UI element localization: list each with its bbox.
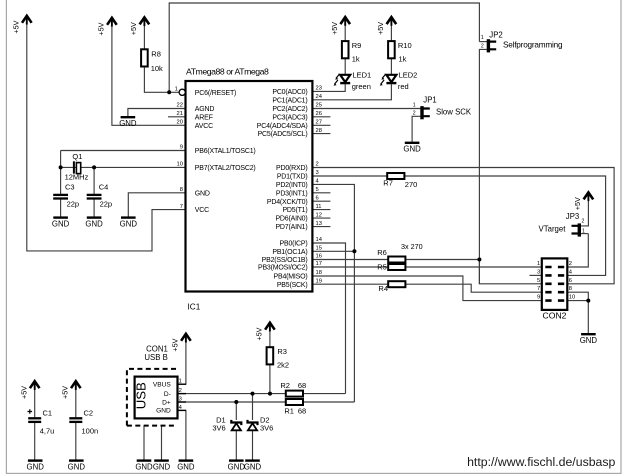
wire PC2 pin 25 to JP1 pin 1	[312, 108, 420, 110]
svg-text:PC4(ADC4/SDA): PC4(ADC4/SDA)	[257, 123, 308, 130]
wire D2 to D- line	[252, 394, 254, 420]
wire PB5 SCK pin 19 to R4	[312, 283, 388, 285]
svg-text:25: 25	[316, 103, 322, 109]
wire C1 to ground	[34, 423, 36, 460]
svg-text:+5V: +5V	[129, 22, 138, 35]
svg-text:R9: R9	[352, 41, 362, 50]
node XTAL1 junction	[59, 165, 63, 169]
svg-text:D-: D-	[164, 391, 171, 398]
wire +5V to VCC pin 7	[27, 17, 186, 251]
node RESET junction R8/top-rail/pin1	[167, 90, 171, 94]
svg-text:USB: USB	[133, 382, 148, 409]
CON2 pin bars row 3	[545, 282, 564, 285]
svg-text:R10: R10	[398, 41, 412, 50]
svg-text:AVCC: AVCC	[195, 123, 213, 130]
svg-text:3V6: 3V6	[212, 424, 225, 433]
wire XTAL1 pin 9	[61, 150, 186, 152]
svg-text:R7: R7	[383, 179, 393, 188]
svg-text:100n: 100n	[82, 426, 99, 435]
svg-text:23: 23	[316, 86, 322, 92]
wire +5V to R9	[344, 18, 346, 41]
ground under JP1	[405, 142, 420, 144]
svg-text:PD6(AIN0): PD6(AIN0)	[275, 216, 307, 223]
ground USB shield a	[137, 459, 152, 461]
wire AGND pin 22 to ground	[128, 109, 186, 117]
wire R1 to PB1/INT0 net	[304, 401, 355, 403]
svg-text:CON2: CON2	[543, 311, 567, 321]
diode D1 zener 3V6	[231, 420, 241, 430]
capacitor C3 22p	[53, 195, 68, 199]
svg-text:22p: 22p	[100, 200, 113, 209]
wire R8 to RESET pin 1	[144, 67, 179, 93]
wire R7 to CON2 pin 4	[404, 176, 605, 275]
svg-text:AGND: AGND	[195, 106, 215, 113]
svg-text:2: 2	[582, 218, 585, 224]
svg-text:USB B: USB B	[144, 353, 167, 362]
capacitor C1 4,7u electrolytic plus sign	[28, 409, 33, 414]
svg-text:2: 2	[569, 261, 572, 267]
svg-text:C4: C4	[99, 182, 109, 191]
wire GND pin 8 to ground	[128, 193, 185, 217]
svg-text:10k: 10k	[151, 64, 163, 73]
wire USB shield to ground b	[161, 426, 163, 460]
svg-text:+5V: +5V	[20, 386, 29, 399]
svg-text:ATmega88 or ATmega8: ATmega88 or ATmega8	[186, 66, 269, 76]
svg-text:GND: GND	[135, 462, 153, 471]
svg-text:C3: C3	[65, 182, 75, 191]
svg-text:27: 27	[316, 120, 322, 126]
wire reset net down (drawn above)	[478, 260, 480, 284]
wire XTAL1 node down to C3	[60, 151, 62, 195]
svg-text:PC3(ADC3): PC3(ADC3)	[272, 114, 307, 121]
svg-text:2k2: 2k2	[277, 360, 289, 369]
resistor R9 1k	[342, 41, 349, 58]
svg-text:GND: GND	[195, 190, 210, 197]
capacitor C1 4,7u	[28, 418, 41, 422]
jumper JP3 VTarget	[572, 223, 580, 236]
svg-text:1: 1	[175, 86, 178, 92]
wire PB0 pin 14 down to USB D- net	[312, 243, 345, 394]
svg-text:26: 26	[316, 111, 322, 117]
svg-text:+5V: +5V	[97, 22, 106, 35]
capacitor C4 22p	[87, 195, 102, 199]
svg-text:9: 9	[180, 145, 183, 151]
svg-text:Selfprogramming: Selfprogramming	[503, 40, 563, 49]
svg-text:11: 11	[316, 204, 322, 210]
svg-text:1: 1	[537, 261, 540, 267]
jumper JP1 Slow SCK	[422, 106, 430, 119]
CON2 pin bars row 5	[545, 299, 564, 302]
wire +5V to R8	[143, 18, 145, 49]
svg-text:C2: C2	[84, 408, 94, 417]
svg-text:+5V: +5V	[171, 338, 180, 351]
svg-text:PB2(SS/OC1B): PB2(SS/OC1B)	[262, 257, 308, 264]
wire PD0 RXD pin 2 to CON2 pin 6	[312, 168, 614, 284]
svg-text:2: 2	[316, 162, 319, 168]
svg-text:+5V: +5V	[61, 386, 70, 399]
CON2 pin bars row 4	[545, 291, 564, 294]
svg-text:PD7(AIN1): PD7(AIN1)	[275, 224, 307, 231]
pin 1 inverting bubble on PC6/RESET	[179, 89, 185, 95]
svg-text:GND: GND	[228, 462, 246, 471]
wire PD1 TXD pin 3 to R7	[312, 175, 387, 177]
resistor R10 1k	[388, 41, 395, 58]
svg-text:18: 18	[316, 270, 322, 276]
wire pin 27 stub	[312, 124, 330, 126]
svg-text:PB0(ICP): PB0(ICP)	[280, 241, 308, 248]
svg-text:JP3: JP3	[566, 212, 579, 221]
resistor R1 68	[286, 399, 303, 405]
svg-text:VBUS: VBUS	[153, 381, 172, 388]
node D1 on D+ line	[234, 400, 238, 404]
svg-text:PC5(ADC5/SCL): PC5(ADC5/SCL)	[258, 131, 308, 138]
resistor R2 68	[286, 391, 303, 397]
svg-text:PB3(MOSI/OC2): PB3(MOSI/OC2)	[258, 265, 308, 272]
svg-text:R1: R1	[284, 407, 294, 416]
resistor R7 270	[387, 173, 404, 179]
wire +5V to C1	[34, 382, 36, 418]
wire +5V top rail from RESET node to JP2 pin 1	[169, 3, 479, 92]
wire C4 to ground	[93, 199, 95, 217]
svg-text:GND: GND	[85, 219, 103, 228]
svg-text:GND: GND	[244, 462, 262, 471]
diode D2 zener 3V6	[248, 420, 258, 430]
svg-text:JP1: JP1	[423, 95, 436, 104]
svg-text:5: 5	[316, 187, 319, 193]
svg-text:13: 13	[316, 221, 322, 227]
wire R5 to CON2 pin 1	[405, 266, 541, 268]
wire USB D- to R2	[178, 393, 286, 395]
wire CON2 pin 3 stub	[530, 274, 542, 276]
svg-text:3: 3	[316, 170, 319, 176]
wire crystal to XTAL2 pin 10	[61, 166, 186, 168]
svg-text:PC0(ADC0): PC0(ADC0)	[272, 89, 307, 96]
svg-text:PB4(MISO): PB4(MISO)	[274, 274, 308, 281]
wire crystal node down to C4	[93, 167, 95, 194]
svg-text:17: 17	[316, 261, 322, 267]
svg-text:CON1: CON1	[146, 344, 168, 353]
svg-text:C1: C1	[43, 408, 53, 417]
svg-text:24: 24	[316, 94, 323, 100]
svg-text:PD4(XCK/T0): PD4(XCK/T0)	[267, 199, 308, 206]
svg-text:2: 2	[413, 111, 416, 117]
svg-text:2: 2	[481, 43, 484, 49]
ground under CON2	[581, 333, 596, 335]
svg-text:VTarget: VTarget	[539, 225, 567, 234]
svg-text:AREF: AREF	[195, 114, 213, 121]
wire pin 6 stub	[312, 200, 330, 202]
ground USB pin 4	[179, 459, 194, 461]
+5V arrow JP3	[584, 192, 594, 201]
+5V arrow AVCC	[107, 18, 117, 27]
svg-text:270: 270	[405, 180, 418, 189]
wire D1 to ground	[235, 431, 237, 460]
+5V arrow far left (VCC rail)	[22, 16, 32, 25]
wire CON2 pin 8 to ground net	[567, 292, 588, 300]
svg-text:PC6(/RESET): PC6(/RESET)	[195, 90, 236, 97]
wire pin 12 stub	[312, 217, 330, 219]
svg-text:PD2(INT0): PD2(INT0)	[276, 182, 308, 189]
wire JP2 pin 2 down to CON2 pin 5 (target RESET net)	[479, 49, 541, 283]
svg-text:3V6: 3V6	[260, 424, 273, 433]
svg-text:2: 2	[179, 388, 182, 394]
svg-text:10: 10	[569, 295, 575, 301]
svg-text:VCC: VCC	[195, 207, 209, 214]
svg-text:19: 19	[316, 278, 322, 284]
wire JP1 pin 2 to ground	[412, 116, 420, 142]
svg-text:PB6(XTAL1/TOSC1): PB6(XTAL1/TOSC1)	[195, 148, 256, 155]
wire LED2 to PC1 pin 24	[312, 84, 391, 100]
wire D- net.. D1 to D+ line	[235, 402, 237, 420]
svg-text:red: red	[398, 82, 409, 91]
wire PD2 INT0 pin 4 down to USB D+ net	[312, 184, 354, 402]
svg-text:+5V: +5V	[330, 22, 339, 35]
svg-text:http://www.fischl.de/usbasp: http://www.fischl.de/usbasp	[467, 455, 615, 469]
svg-text:7: 7	[537, 286, 540, 292]
svg-text:3x 270: 3x 270	[401, 242, 423, 251]
wire +5V to USB VBUS pin 1	[178, 335, 186, 384]
wire pin 13 stub	[312, 226, 330, 228]
svg-text:+5V: +5V	[573, 197, 582, 210]
svg-text:68: 68	[298, 381, 306, 390]
svg-text:LED1: LED1	[352, 70, 371, 79]
svg-text:14: 14	[316, 237, 323, 243]
ground for IC pin 8	[121, 216, 136, 218]
svg-text:PD0(RXD): PD0(RXD)	[276, 165, 307, 172]
svg-text:IC1: IC1	[188, 302, 201, 311]
svg-text:7: 7	[180, 204, 183, 210]
resistor R3 2k2	[267, 347, 274, 364]
ground USB shield b	[154, 459, 169, 461]
USB pin stubs and numbers	[177, 383, 186, 385]
connector CON2 10-pin ISP header	[542, 258, 568, 310]
wire +5V to R3	[269, 324, 271, 347]
wire R10 to LED2	[390, 58, 392, 74]
wire AREF pin 21 stub	[168, 116, 186, 118]
svg-text:+5V: +5V	[12, 20, 21, 33]
svg-text:22p: 22p	[67, 200, 80, 209]
node D2 on D- line	[251, 392, 255, 396]
wire LED1 to PC0 pin 23	[312, 84, 345, 91]
svg-text:PB5(SCK): PB5(SCK)	[277, 282, 308, 289]
wire +5V to JP3 pin 2	[581, 194, 589, 226]
CON2 pin bars row 1	[545, 266, 564, 269]
svg-text:PD3(INT1): PD3(INT1)	[276, 190, 308, 197]
svg-text:GND: GND	[153, 462, 171, 471]
connector CON1 USB B receptacle	[127, 369, 179, 426]
svg-text:GND: GND	[52, 219, 70, 228]
node XTAL2 junction	[92, 165, 96, 169]
svg-text:JP2: JP2	[489, 31, 502, 40]
+5V arrow C1	[30, 381, 40, 390]
svg-text:6: 6	[569, 278, 572, 284]
wire USB shield to ground a	[143, 426, 145, 460]
svg-text:21: 21	[177, 111, 183, 117]
svg-text:12: 12	[316, 212, 322, 218]
+5V arrow C2	[71, 381, 81, 390]
svg-text:R4: R4	[378, 284, 388, 293]
wire +5V to AVCC pin 20	[112, 19, 186, 125]
ground under C2	[69, 459, 84, 461]
CON2 pin bars row 2	[545, 274, 564, 277]
wire R6 to JP2/CON2 reset net	[405, 259, 479, 261]
svg-text:16: 16	[316, 254, 322, 260]
wire JP3 pin 1 out	[581, 233, 589, 235]
wire R3 down to D- net	[269, 364, 271, 394]
svg-text:R5: R5	[377, 262, 387, 271]
LED LED2 red	[380, 74, 397, 86]
svg-text:8: 8	[180, 187, 183, 193]
svg-text:R3: R3	[277, 347, 287, 356]
svg-text:Q1: Q1	[72, 152, 82, 161]
svg-text:12MHz: 12MHz	[65, 173, 89, 182]
svg-text:PD1(TXD): PD1(TXD)	[277, 174, 308, 181]
resistor R8 10k	[141, 49, 148, 66]
ground under C4	[87, 216, 102, 218]
svg-text:5: 5	[537, 278, 540, 284]
wire C3 to ground	[60, 199, 62, 217]
op-amp U1 : microcontroller IC1 ATmega8 box	[186, 81, 313, 292]
wire PB2 pin 16 to R6	[312, 259, 388, 261]
svg-text:GND: GND	[403, 145, 421, 154]
ground under C3	[53, 216, 68, 218]
svg-text:1: 1	[179, 379, 182, 385]
node R3 on D- line	[268, 392, 272, 396]
wire D2 to ground	[252, 431, 254, 460]
wire pin 11 stub	[312, 209, 330, 211]
svg-text:GND: GND	[27, 462, 45, 471]
+5V arrow USB VBUS	[181, 334, 191, 343]
svg-text:10: 10	[177, 162, 183, 168]
svg-text:20: 20	[177, 120, 183, 126]
svg-text:PD5(T1): PD5(T1)	[282, 207, 307, 214]
wire pin 5 stub	[312, 192, 330, 194]
node ground junction CON2 pins 8/10	[586, 299, 590, 303]
wire PB3 MOSI pin 17 to R5	[312, 266, 388, 268]
svg-text:1: 1	[481, 35, 484, 41]
svg-text:D+: D+	[162, 399, 171, 406]
svg-text:3: 3	[537, 269, 540, 275]
svg-text:1k: 1k	[352, 55, 360, 64]
svg-text:68: 68	[298, 407, 306, 416]
svg-text:6: 6	[316, 195, 319, 201]
svg-text:GND: GND	[580, 336, 598, 345]
ground under C1	[28, 459, 43, 461]
wire USB GND pin 4 to ground	[178, 410, 186, 459]
resistor R6 270	[388, 257, 405, 263]
svg-text:GND: GND	[120, 219, 138, 228]
wire PB1 pin 15 to D+ net junction	[312, 250, 354, 252]
wire CON2 pin 10 to ground	[567, 301, 588, 334]
svg-text:4,7u: 4,7u	[40, 426, 55, 435]
svg-text:1k: 1k	[399, 55, 407, 64]
node D+ net meets PB1	[352, 249, 356, 253]
resistor R4 270	[388, 281, 405, 287]
wire C2 to ground	[75, 423, 77, 460]
+5V arrow R8	[140, 17, 150, 26]
svg-text:GND: GND	[177, 462, 195, 471]
svg-text:28: 28	[316, 128, 322, 134]
+5V arrow R9	[340, 17, 350, 26]
ground under D1	[229, 459, 244, 461]
svg-text:9: 9	[537, 295, 540, 301]
wire pin 28 stub	[312, 133, 330, 135]
wire USB D+ to R1	[178, 401, 286, 403]
+5V arrow R10	[387, 17, 397, 26]
LED LED1 green	[334, 74, 351, 86]
crystal Q1 12MHz	[74, 161, 81, 173]
svg-text:PC1(ADC1): PC1(ADC1)	[272, 97, 307, 104]
svg-text:PC2(ADC2): PC2(ADC2)	[272, 106, 307, 113]
svg-text:GND: GND	[156, 408, 171, 415]
svg-text:+5V: +5V	[255, 327, 264, 340]
svg-text:green: green	[352, 82, 371, 91]
svg-text:+5V: +5V	[376, 22, 385, 35]
svg-text:3: 3	[179, 396, 182, 402]
svg-text:PB1(OC1A): PB1(OC1A)	[272, 249, 307, 256]
svg-text:R2: R2	[280, 381, 290, 390]
+5V arrow R3	[265, 323, 275, 332]
wire R9 to LED1	[344, 58, 346, 74]
wire +5V to R10	[390, 18, 392, 41]
svg-text:1: 1	[413, 102, 416, 108]
svg-text:R6: R6	[377, 248, 387, 257]
node reset net junction JP2/R6	[477, 258, 481, 262]
wire pin 26 stub	[312, 116, 330, 118]
svg-text:GND: GND	[68, 462, 86, 471]
wire R2 to PB0 net	[304, 393, 346, 395]
wire +5V to C2	[75, 382, 77, 418]
jumper JP2 Selfprogramming	[488, 39, 496, 52]
ground AGND	[121, 116, 136, 118]
ground under D2	[245, 459, 260, 461]
wire CON2 pin 2 up to JP3 pin 1	[567, 234, 588, 267]
capacitor C2 100n	[69, 418, 82, 422]
wire R4 to CON2 pin 7	[405, 284, 541, 292]
svg-text:LED2: LED2	[399, 70, 418, 79]
resistor R5 270	[388, 264, 405, 270]
svg-text:8: 8	[569, 286, 572, 292]
wire PB4 MISO pin 18 to CON2 pin 9	[312, 276, 541, 301]
svg-text:15: 15	[316, 246, 322, 252]
wire JP2 pin 1 entry	[479, 41, 487, 43]
svg-text:GND: GND	[119, 119, 137, 128]
svg-text:22: 22	[177, 103, 183, 109]
svg-text:R8: R8	[151, 49, 161, 58]
svg-text:1: 1	[582, 229, 585, 235]
svg-text:PB7(XTAL2/TOSC2): PB7(XTAL2/TOSC2)	[195, 165, 256, 172]
svg-text:Slow SCK: Slow SCK	[436, 107, 472, 116]
